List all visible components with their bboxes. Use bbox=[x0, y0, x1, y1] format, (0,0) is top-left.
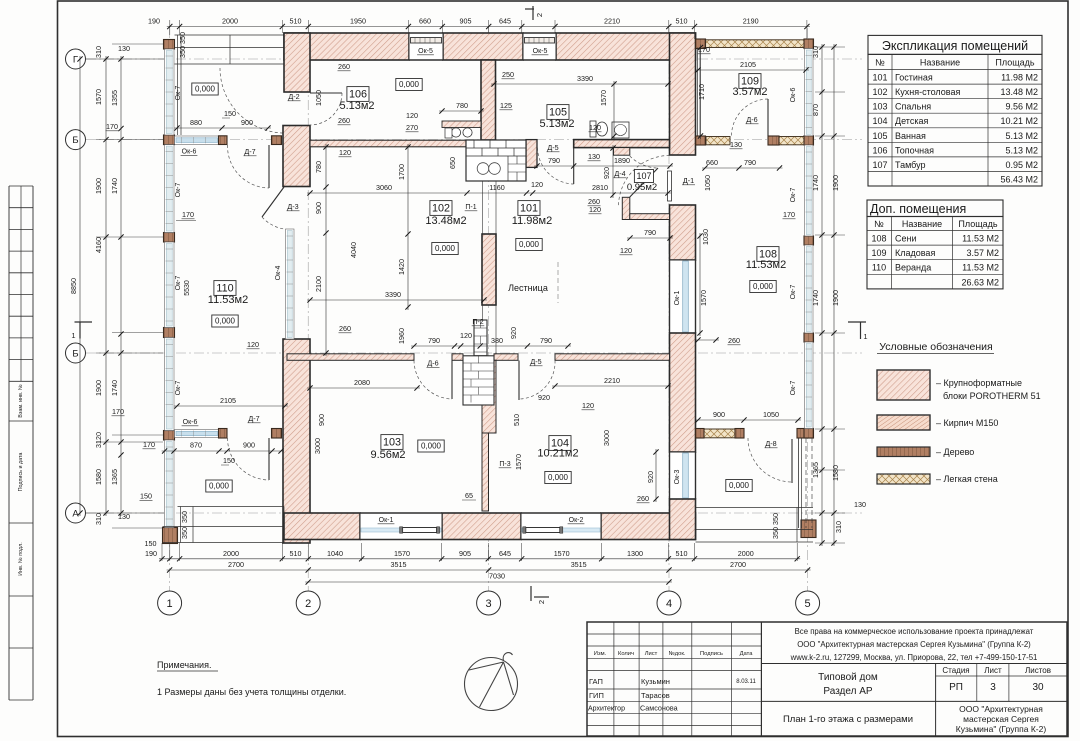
svg-text:900: 900 bbox=[241, 118, 253, 127]
dim row 3060-1160-120-2810 bbox=[307, 192, 671, 194]
svg-text:Веранда: Веранда bbox=[895, 263, 931, 273]
svg-text:11.53м2: 11.53м2 bbox=[208, 294, 248, 306]
section marker 1 left bbox=[75, 321, 93, 323]
svg-text:11.98м2: 11.98м2 bbox=[512, 215, 552, 227]
svg-text:3: 3 bbox=[990, 682, 996, 693]
svg-text:920: 920 bbox=[538, 393, 550, 402]
stairs dashed line bbox=[557, 262, 559, 303]
svg-text:Стадия: Стадия bbox=[942, 666, 969, 675]
svg-text:11.98 М2: 11.98 М2 bbox=[1001, 73, 1038, 83]
svg-text:блоки POROTHERM 51: блоки POROTHERM 51 bbox=[943, 391, 1041, 401]
svg-text:0,000: 0,000 bbox=[421, 442, 442, 451]
svg-text:107: 107 bbox=[872, 160, 887, 170]
legend wood box bbox=[877, 447, 930, 457]
svg-text:Колич: Колич bbox=[618, 651, 634, 657]
svg-text:2: 2 bbox=[537, 600, 546, 604]
wall stub right of stove bbox=[526, 140, 537, 168]
svg-text:Д-4: Д-4 bbox=[614, 169, 625, 178]
axis grid dash-dot lines bbox=[169, 28, 171, 591]
axis circle 4 bbox=[657, 591, 681, 615]
svg-text:Д-1: Д-1 bbox=[683, 176, 694, 185]
svg-text:Кухня-столовая: Кухня-столовая bbox=[895, 87, 960, 97]
svg-text:1570: 1570 bbox=[599, 90, 608, 106]
svg-text:План 1-го этажа с размерами: План 1-го этажа с размерами bbox=[783, 714, 913, 725]
svg-text:П-2: П-2 bbox=[472, 319, 483, 326]
svg-text:1570: 1570 bbox=[514, 454, 523, 470]
svg-text:5: 5 bbox=[805, 598, 811, 610]
room 104 labels bbox=[549, 436, 571, 451]
divider wall 109/108 left part bbox=[706, 137, 730, 145]
svg-text:Дата: Дата bbox=[740, 651, 754, 657]
right wall axis 5 columns bbox=[804, 136, 814, 145]
dim 920 vertical tambour bbox=[612, 145, 614, 198]
door Д-1 leaf and arc bbox=[668, 171, 672, 201]
svg-text:1700: 1700 bbox=[397, 164, 406, 180]
flue П-2 upper bbox=[474, 320, 487, 356]
svg-text:120: 120 bbox=[589, 205, 601, 214]
door Д-6 right leaf bbox=[767, 99, 769, 136]
svg-text:102: 102 bbox=[872, 87, 887, 97]
room 103 labels bbox=[381, 435, 403, 450]
svg-text:780: 780 bbox=[314, 161, 323, 173]
axis circle Б upper bbox=[66, 130, 86, 150]
svg-text:120: 120 bbox=[589, 123, 601, 132]
svg-text:310: 310 bbox=[94, 513, 103, 525]
svg-text:7030: 7030 bbox=[489, 572, 505, 581]
svg-text:11.53 М2: 11.53 М2 bbox=[962, 234, 999, 244]
column lower divider a bbox=[696, 429, 705, 439]
dim 2105 room 109 bbox=[695, 69, 809, 71]
svg-text:905: 905 bbox=[460, 17, 472, 26]
svg-text:1900: 1900 bbox=[831, 175, 840, 191]
svg-text:120: 120 bbox=[460, 331, 472, 340]
svg-text:1740: 1740 bbox=[811, 290, 820, 306]
svg-text:2000: 2000 bbox=[223, 549, 239, 558]
dim 790 tambour lower bbox=[627, 237, 673, 239]
svg-text:ГАП: ГАП bbox=[589, 677, 603, 686]
svg-text:107: 107 bbox=[636, 171, 651, 181]
svg-text:250: 250 bbox=[502, 70, 514, 79]
svg-text:1710: 1710 bbox=[697, 84, 706, 100]
svg-text:– Легкая стена: – Легкая стена bbox=[936, 474, 998, 484]
svg-text:660: 660 bbox=[419, 17, 431, 26]
svg-text:5.13м2: 5.13м2 bbox=[539, 118, 574, 130]
svg-text:Ок-2: Ок-2 bbox=[569, 517, 584, 524]
svg-text:120: 120 bbox=[247, 340, 259, 349]
column lower divider right bbox=[272, 429, 282, 439]
svg-text:Название: Название bbox=[902, 219, 942, 229]
svg-text:150: 150 bbox=[140, 492, 152, 501]
svg-text:Д-5: Д-5 bbox=[530, 357, 541, 366]
door Д-6 left leaf and arc bbox=[451, 361, 453, 400]
svg-text:Инв. № подл.: Инв. № подл. bbox=[18, 542, 24, 576]
svg-text:170: 170 bbox=[106, 122, 118, 131]
svg-text:Лестница: Лестница bbox=[508, 283, 548, 293]
svg-text:1570: 1570 bbox=[94, 89, 103, 105]
svg-text:3.57 М2: 3.57 М2 bbox=[966, 248, 999, 258]
svg-text:Д-3: Д-3 bbox=[287, 202, 298, 211]
svg-text:1570: 1570 bbox=[699, 290, 708, 306]
svg-text:Сени: Сени bbox=[895, 234, 917, 244]
bottom dimension chain row3 bbox=[305, 581, 672, 583]
svg-text:645: 645 bbox=[499, 17, 511, 26]
svg-text:Г: Г bbox=[73, 55, 78, 66]
svg-text:Ок-6: Ок-6 bbox=[183, 419, 198, 426]
veranda bottom porch steps bbox=[178, 506, 285, 508]
svg-text:645: 645 bbox=[499, 549, 511, 558]
svg-text:Доп. помещения: Доп. помещения bbox=[870, 202, 966, 216]
exterior wall left (axis 2) upper bbox=[284, 33, 310, 92]
svg-text:2105: 2105 bbox=[740, 60, 756, 69]
svg-text:920: 920 bbox=[602, 167, 611, 179]
svg-text:0,000: 0,000 bbox=[729, 481, 750, 490]
veranda lower divider window Ок-6 bbox=[175, 430, 220, 438]
column Б right bbox=[272, 136, 282, 145]
svg-text:2700: 2700 bbox=[228, 560, 244, 569]
room 102 labels bbox=[430, 201, 452, 216]
svg-text:0,000: 0,000 bbox=[195, 85, 216, 94]
svg-text:260: 260 bbox=[339, 324, 351, 333]
veranda top wall Б window Ок-6 bbox=[175, 136, 220, 144]
column lower divider mid bbox=[219, 429, 228, 439]
svg-text:1050: 1050 bbox=[314, 90, 323, 106]
svg-text:Д-2: Д-2 bbox=[288, 92, 299, 101]
svg-text:105: 105 bbox=[872, 131, 887, 141]
svg-text:870: 870 bbox=[811, 104, 820, 116]
svg-text:Кладовая: Кладовая bbox=[895, 248, 935, 258]
svg-text:56.43 М2: 56.43 М2 bbox=[1000, 175, 1038, 185]
legend light wall box bbox=[877, 474, 930, 484]
svg-text:Кузьмин: Кузьмин bbox=[641, 677, 670, 686]
svg-text:Листов: Листов bbox=[1025, 666, 1051, 675]
svg-text:2210: 2210 bbox=[604, 376, 620, 385]
exterior wall left lower bbox=[283, 339, 310, 543]
svg-text:510: 510 bbox=[676, 17, 688, 26]
svg-text:П-1: П-1 bbox=[465, 204, 476, 211]
svg-text:Гостиная: Гостиная bbox=[895, 73, 933, 83]
svg-text:Ок-4: Ок-4 bbox=[275, 266, 282, 281]
svg-text:1 Размеры даны без учета толщи: 1 Размеры даны без учета толщины отделки… bbox=[157, 687, 346, 697]
svg-text:920: 920 bbox=[646, 471, 655, 483]
svg-text:1960: 1960 bbox=[397, 328, 406, 344]
axis circle 1 bbox=[158, 591, 182, 615]
svg-text:1900: 1900 bbox=[94, 380, 103, 396]
svg-text:1355: 1355 bbox=[110, 90, 119, 106]
svg-text:125: 125 bbox=[500, 101, 512, 110]
window Ок-2 bottom bbox=[521, 513, 601, 540]
window Ок-3 in right wall bbox=[670, 452, 696, 499]
section marker 2 bottom bbox=[530, 586, 532, 601]
svg-text:1365: 1365 bbox=[811, 462, 820, 478]
svg-text:Ок-7: Ок-7 bbox=[790, 381, 797, 396]
room 105 labels bbox=[547, 105, 569, 120]
svg-text:4040: 4040 bbox=[349, 242, 358, 258]
section marker 2 top bbox=[532, 6, 534, 20]
svg-text:105: 105 bbox=[549, 107, 567, 119]
column divider right bbox=[768, 136, 779, 145]
axis circle А bbox=[66, 503, 86, 523]
svg-text:2190: 2190 bbox=[743, 17, 759, 26]
door Д-7 lower leaf and arc bbox=[268, 438, 270, 480]
door Д-3 leaf and arc bbox=[262, 187, 284, 217]
dim 2210 bbox=[552, 385, 671, 387]
column divider left bbox=[696, 136, 706, 145]
svg-text:106: 106 bbox=[349, 89, 367, 101]
svg-text:106: 106 bbox=[872, 145, 887, 155]
exterior wall right segment 2 bbox=[670, 205, 696, 260]
svg-text:1580: 1580 bbox=[831, 465, 840, 481]
svg-text:Площадь: Площадь bbox=[958, 219, 997, 229]
door Д-8 leaf bbox=[791, 439, 793, 483]
svg-text:Ок-7: Ок-7 bbox=[790, 285, 797, 300]
svg-text:Взам. инв. №: Взам. инв. № bbox=[18, 384, 24, 418]
room 108 labels bbox=[757, 247, 779, 262]
svg-text:1420: 1420 bbox=[397, 259, 406, 275]
svg-text:1160: 1160 bbox=[489, 183, 504, 192]
svg-text:1570: 1570 bbox=[394, 549, 410, 558]
svg-text:3.57м2: 3.57м2 bbox=[732, 86, 767, 98]
svg-text:Самсонова: Самсонова bbox=[640, 704, 678, 713]
dim 660-790 under divider bbox=[702, 167, 783, 169]
wall between kitchen 102 and hall 101 bbox=[482, 234, 496, 305]
svg-text:650: 650 bbox=[448, 157, 457, 169]
svg-text:1: 1 bbox=[167, 598, 173, 610]
bottom dimension chain row1 bbox=[161, 543, 163, 561]
svg-text:790: 790 bbox=[540, 336, 552, 345]
svg-text:1050: 1050 bbox=[703, 175, 712, 191]
interior wall bathroom 105 left bbox=[481, 60, 496, 140]
right dimension chain inner bbox=[833, 44, 835, 546]
svg-text:900: 900 bbox=[243, 441, 255, 450]
title block frame bbox=[587, 622, 1067, 736]
column top right b bbox=[804, 39, 814, 49]
svg-text:Ок-1: Ок-1 bbox=[674, 291, 681, 306]
right wall window Ок-6 bbox=[805, 49, 814, 136]
svg-text:130: 130 bbox=[854, 500, 866, 509]
svg-text:880: 880 bbox=[190, 118, 202, 127]
dim row 870-900 veranda lower bbox=[162, 450, 284, 452]
svg-text:2810: 2810 bbox=[592, 183, 608, 192]
column lower divider b bbox=[797, 429, 813, 439]
right dimension chain outer bbox=[815, 46, 845, 48]
svg-text:8.03.11: 8.03.11 bbox=[736, 679, 756, 685]
svg-text:Ок-5: Ок-5 bbox=[533, 48, 548, 55]
svg-text:108: 108 bbox=[871, 234, 886, 244]
svg-text:№: № bbox=[874, 219, 884, 229]
dim 1570 vertical room 105 bbox=[613, 81, 615, 139]
left dimension chain inner bbox=[120, 56, 122, 516]
svg-text:Ок-6: Ок-6 bbox=[182, 149, 197, 156]
svg-text:Топочная: Топочная bbox=[895, 145, 934, 155]
partition wall Б2 segment a bbox=[287, 354, 414, 361]
dim 900-1050 room 108 bbox=[695, 419, 801, 421]
door Д-7 upper leaf and arc bbox=[268, 145, 270, 188]
svg-text:– Крупноформатные: – Крупноформатные bbox=[936, 378, 1022, 388]
svg-text:1580: 1580 bbox=[94, 469, 103, 485]
svg-text:8850: 8850 bbox=[69, 278, 78, 294]
svg-text:900: 900 bbox=[317, 414, 326, 426]
svg-text:А: А bbox=[72, 509, 79, 520]
svg-text:9.56м2: 9.56м2 bbox=[370, 449, 405, 461]
svg-text:Д-6: Д-6 bbox=[427, 359, 438, 368]
svg-text:310: 310 bbox=[94, 46, 103, 58]
dim 2105 veranda lower bbox=[174, 405, 288, 407]
svg-text:2: 2 bbox=[305, 598, 311, 610]
svg-text:170: 170 bbox=[783, 210, 795, 219]
porch right edge open bbox=[798, 438, 800, 528]
svg-text:Типовой дом: Типовой дом bbox=[818, 672, 878, 683]
cold wall top right bbox=[706, 40, 805, 48]
svg-text:3060: 3060 bbox=[376, 183, 392, 192]
svg-text:510: 510 bbox=[290, 549, 302, 558]
north arrow bbox=[465, 658, 518, 711]
svg-text:0.95м2: 0.95м2 bbox=[627, 182, 657, 193]
top dimension chain bbox=[169, 20, 171, 35]
svg-text:350: 350 bbox=[771, 527, 780, 539]
svg-text:150: 150 bbox=[223, 456, 235, 465]
svg-text:Изм.: Изм. bbox=[594, 651, 607, 657]
room 109 left edge lines bbox=[697, 48, 699, 137]
lower divider 108/porch bbox=[704, 429, 735, 438]
svg-text:102: 102 bbox=[432, 203, 450, 215]
svg-text:3000: 3000 bbox=[602, 430, 611, 446]
svg-text:Ок-1: Ок-1 bbox=[379, 517, 394, 524]
svg-text:26.63 М2: 26.63 М2 bbox=[961, 277, 999, 287]
partition wall 106/102 at axis Б bbox=[310, 140, 466, 147]
title block left grid bbox=[613, 622, 615, 736]
svg-text:1300: 1300 bbox=[627, 549, 643, 558]
title block project cell bbox=[761, 663, 1067, 665]
svg-text:ООО "Архитектурная: ООО "Архитектурная bbox=[959, 704, 1043, 714]
dim 1570 in right wall bbox=[699, 233, 701, 336]
svg-text:Все права на коммерческое испо: Все права на коммерческое использование … bbox=[795, 627, 1034, 636]
svg-text:10.21м2: 10.21м2 bbox=[537, 448, 578, 460]
door Д-2 leaf and arc bbox=[310, 92, 342, 94]
stove П-1 bbox=[466, 140, 526, 181]
svg-text:120: 120 bbox=[406, 111, 418, 120]
partition wall Б2 segment b bbox=[452, 354, 463, 361]
svg-text:1: 1 bbox=[71, 331, 75, 340]
svg-text:Условные обозначения: Условные обозначения bbox=[879, 341, 992, 353]
stairs boundary thin lines upper bbox=[482, 181, 484, 234]
left dimension chain outer 8850 bbox=[86, 58, 164, 60]
svg-text:9.56 М2: 9.56 М2 bbox=[1005, 102, 1038, 112]
door Д-5 lower leaf and arc bbox=[518, 361, 520, 401]
svg-text:Д-8: Д-8 bbox=[765, 439, 776, 448]
room 107 labels bbox=[634, 170, 653, 183]
svg-text:13.48 М2: 13.48 М2 bbox=[1000, 87, 1038, 97]
veranda left wall columns bbox=[164, 40, 175, 50]
title block sheet name cell bbox=[761, 700, 1067, 702]
dim 260 room 108 bbox=[695, 339, 719, 341]
svg-text:П-3: П-3 bbox=[499, 461, 510, 468]
svg-text:Ок-5: Ок-5 bbox=[418, 48, 433, 55]
svg-text:310: 310 bbox=[834, 521, 843, 533]
svg-text:170: 170 bbox=[698, 45, 710, 54]
dim row 880-150-900 veranda top bbox=[174, 127, 271, 129]
axis circle 5 bbox=[796, 591, 820, 615]
svg-text:Кузьмина" (Группа К-2): Кузьмина" (Группа К-2) bbox=[956, 724, 1047, 734]
room 101 labels bbox=[518, 201, 540, 216]
exterior wall right lower bbox=[670, 499, 696, 540]
svg-text:103: 103 bbox=[872, 102, 887, 112]
svg-text:13.48м2: 13.48м2 bbox=[425, 215, 466, 227]
svg-text:Ок-7: Ок-7 bbox=[790, 188, 797, 203]
svg-text:5.13 М2: 5.13 М2 bbox=[1005, 131, 1038, 141]
svg-text:№: № bbox=[875, 58, 885, 68]
svg-text:900: 900 bbox=[713, 410, 725, 419]
svg-text:260: 260 bbox=[338, 116, 350, 125]
svg-text:110: 110 bbox=[872, 263, 886, 273]
svg-text:1890: 1890 bbox=[614, 156, 630, 165]
interior wall under 105 / stairs bbox=[574, 140, 670, 148]
svg-text:3390: 3390 bbox=[385, 290, 401, 299]
svg-text:Подпись: Подпись bbox=[700, 651, 723, 657]
svg-text:10.21 М2: 10.21 М2 bbox=[1000, 116, 1038, 126]
svg-text:270: 270 bbox=[406, 123, 418, 132]
partition niche room 106 bbox=[442, 121, 481, 128]
svg-text:0.95 М2: 0.95 М2 bbox=[1005, 160, 1038, 170]
divider wall 109/108 right part bbox=[779, 137, 804, 145]
svg-text:870: 870 bbox=[190, 441, 202, 450]
svg-text:Тамбур: Тамбур bbox=[895, 160, 926, 170]
column at door Д-8 bbox=[735, 429, 744, 439]
svg-text:Подпись и дата: Подпись и дата bbox=[18, 453, 24, 492]
svg-text:Детская: Детская bbox=[895, 116, 928, 126]
svg-text:ООО "Архитектурная мастерская: ООО "Архитектурная мастерская Сергея Куз… bbox=[797, 640, 1031, 649]
column top right a bbox=[696, 39, 706, 49]
svg-text:120: 120 bbox=[531, 180, 543, 189]
svg-text:2: 2 bbox=[535, 13, 544, 17]
svg-text:1900: 1900 bbox=[94, 178, 103, 194]
axis circle Б lower bbox=[66, 343, 86, 363]
svg-text:120: 120 bbox=[582, 401, 594, 410]
svg-text:350: 350 bbox=[180, 511, 189, 523]
table Экспликация помещений bbox=[868, 35, 1042, 54]
svg-text:660: 660 bbox=[706, 158, 718, 167]
dim 1710 room 109 bbox=[700, 45, 702, 140]
dim 3390 room 105 bbox=[491, 83, 671, 85]
svg-text:Площадь: Площадь bbox=[995, 58, 1034, 68]
boiler circles room 106 bbox=[451, 128, 460, 137]
svg-text:Ок-7: Ок-7 bbox=[175, 381, 182, 396]
porch bottom right edge bbox=[696, 507, 814, 509]
svg-text:1365: 1365 bbox=[110, 469, 119, 485]
svg-text:260: 260 bbox=[728, 336, 740, 345]
right wall window Ок-7 b bbox=[805, 245, 814, 333]
svg-text:104: 104 bbox=[872, 116, 887, 126]
svg-text:2000: 2000 bbox=[222, 17, 238, 26]
svg-text:Лист: Лист bbox=[645, 651, 658, 657]
veranda left windows bbox=[165, 49, 175, 135]
svg-text:Раздел АР: Раздел АР bbox=[823, 686, 873, 697]
svg-text:Спальня: Спальня bbox=[895, 102, 931, 112]
svg-text:0,000: 0,000 bbox=[519, 240, 540, 249]
svg-text:0,000: 0,000 bbox=[753, 282, 774, 291]
flue П-2 lower bbox=[463, 356, 494, 405]
porch swing arc bbox=[220, 68, 283, 133]
svg-text:780: 780 bbox=[456, 101, 468, 110]
svg-text:Д-7: Д-7 bbox=[244, 147, 255, 156]
svg-text:Экспликация помещений: Экспликация помещений bbox=[882, 39, 1028, 53]
svg-text:11.53м2: 11.53м2 bbox=[746, 259, 786, 271]
svg-text:Ванная: Ванная bbox=[895, 131, 926, 141]
svg-text:110: 110 bbox=[216, 283, 233, 295]
svg-text:109: 109 bbox=[871, 248, 886, 258]
svg-text:103: 103 bbox=[383, 437, 401, 449]
svg-text:350: 350 bbox=[180, 527, 189, 539]
svg-text:510: 510 bbox=[290, 17, 302, 26]
